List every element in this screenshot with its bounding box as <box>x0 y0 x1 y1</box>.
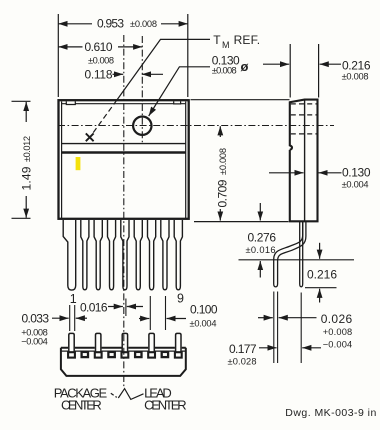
bottom view lead 7 foot <box>148 352 155 357</box>
side view inner line <box>304 101 306 221</box>
svg-text:±0.004: ±0.004 <box>190 318 217 328</box>
bottom view lead 7 column <box>149 333 154 358</box>
side view outline <box>290 100 318 222</box>
lead 8 <box>161 220 169 290</box>
svg-text:−0.004: −0.004 <box>21 337 48 347</box>
side view hidden hole line lower <box>291 133 317 135</box>
side view straight lead <box>300 222 303 287</box>
svg-text:±0.016: ±0.016 <box>246 245 276 255</box>
bottom view lead 3 column <box>96 333 101 358</box>
lead tip level line <box>305 287 337 289</box>
lead 7 <box>148 220 156 290</box>
bar top edge <box>61 347 186 349</box>
lead 5 <box>121 220 129 290</box>
yellow highlight mark <box>76 157 81 170</box>
dim 0.177 arrows <box>259 347 277 349</box>
dim 0.216 top right extension line <box>318 44 320 98</box>
svg-text:0.953: 0.953 <box>97 17 124 31</box>
dim 1.49 arrows <box>25 102 27 122</box>
vertical hole centerline <box>141 36 143 145</box>
svg-text:Dwg. MK-003-9 in: Dwg. MK-003-9 in <box>285 407 376 419</box>
T_M REF leader dashed part <box>91 100 117 135</box>
svg-text:ø: ø <box>241 59 249 74</box>
svg-text:0.118: 0.118 <box>85 67 113 81</box>
lead 4 <box>108 220 116 290</box>
bottom view lead 4 notch <box>108 352 114 357</box>
bottom view lead 5 column <box>122 333 127 358</box>
dim 0.610 arrows <box>58 46 82 48</box>
front view lower ledge line <box>62 151 186 153</box>
svg-text:±0.008: ±0.008 <box>88 56 114 66</box>
mounting hole <box>133 117 151 135</box>
svg-text:1: 1 <box>70 292 77 306</box>
svg-text:T: T <box>213 33 221 47</box>
bottom view lead 9 column <box>176 333 181 358</box>
dim 0.216b up arrow <box>319 289 321 303</box>
svg-text:±0.008: ±0.008 <box>342 72 369 82</box>
dim 1.49 top extension line <box>12 100 31 102</box>
lead 2 <box>81 220 89 290</box>
dim 0.216 top left extension line <box>289 44 291 98</box>
svg-text:±0.008: ±0.008 <box>218 148 228 175</box>
package center leader dashes <box>111 393 117 397</box>
dim 0.130 side arrows <box>269 172 304 174</box>
dim 0.100 arrows <box>139 318 149 320</box>
svg-text:0.016: 0.016 <box>80 300 108 314</box>
svg-text:CENTER: CENTER <box>144 397 187 412</box>
dim 1.49 bottom extension line <box>12 217 31 219</box>
svg-text:±0.004: ±0.004 <box>342 180 369 190</box>
bottom view lead 9 foot <box>175 352 182 357</box>
svg-text:M: M <box>222 40 230 50</box>
svg-text:±0.012: ±0.012 <box>22 136 32 162</box>
front view inner left edge <box>61 102 63 219</box>
side view hidden line top <box>291 103 317 105</box>
svg-text:+0.008: +0.008 <box>323 327 353 337</box>
dim 0.276 down arrow <box>259 203 261 221</box>
T_M REF leader <box>117 39 210 100</box>
bottom view lead 3 foot <box>95 352 102 357</box>
lead 6 <box>134 220 142 290</box>
svg-text:±0.008: ±0.008 <box>212 66 237 76</box>
horizontal hole centerline <box>58 125 334 127</box>
lead 9 <box>174 220 182 290</box>
straight lead extension line <box>300 293 302 364</box>
dim 0.033 arrows <box>52 317 69 319</box>
svg-text:REF.: REF. <box>234 33 261 47</box>
dim 0.100 extension lines <box>150 296 165 330</box>
dim 0.953 arrows <box>58 23 92 25</box>
bar inner top line <box>61 350 186 352</box>
bottom view bar outline <box>61 348 186 376</box>
svg-text:1.49: 1.49 <box>20 166 34 190</box>
svg-text:0.100: 0.100 <box>190 302 218 316</box>
dim 0.953 right extension line <box>187 14 189 97</box>
svg-text:±0.008: ±0.008 <box>130 19 157 29</box>
front view upper ledge line <box>62 143 186 145</box>
dim 0.033 extension lines <box>70 305 75 331</box>
body bottom extension line to side view <box>194 221 289 223</box>
svg-text:0.130: 0.130 <box>342 165 371 179</box>
svg-text:±0.028: ±0.028 <box>228 356 257 366</box>
lead 3 <box>94 220 102 290</box>
svg-text:0.026: 0.026 <box>321 312 353 326</box>
center leader caret <box>118 389 143 400</box>
front view body outline <box>59 100 189 219</box>
svg-text:CENTER: CENTER <box>61 397 102 412</box>
dim 0.118 arrows <box>113 73 124 75</box>
dim 0.953 left extension line <box>57 14 59 97</box>
dim 0.709 arrows <box>219 126 221 137</box>
hole dia leader <box>149 67 210 116</box>
bent lead extension lines <box>274 292 278 364</box>
svg-text:0.216: 0.216 <box>342 58 371 72</box>
front view top-left notch <box>66 101 75 104</box>
body top extension line to side view <box>191 99 290 101</box>
bottom view lead 5 foot <box>122 352 129 357</box>
bottom view lead 2 notch <box>82 352 88 357</box>
svg-text:9: 9 <box>177 292 184 306</box>
svg-text:0.276: 0.276 <box>248 230 277 244</box>
seating plane line <box>239 259 355 261</box>
dim 0.216 top arrows <box>263 63 289 65</box>
svg-text:0.216: 0.216 <box>307 267 337 281</box>
dim 0.016 arrows <box>108 306 123 308</box>
lead 1 <box>63 220 75 290</box>
svg-text:0.177: 0.177 <box>229 342 257 356</box>
dim 0.026 arrows <box>258 317 273 319</box>
lead centerline vertical <box>125 299 127 317</box>
bottom view lead 1 column <box>69 333 74 358</box>
package centerline vertical <box>123 35 125 388</box>
front view inner right edge <box>185 102 187 219</box>
dim 0.216b down arrow <box>319 243 321 259</box>
side view bent lead <box>274 222 306 287</box>
svg-text:0.610: 0.610 <box>85 40 113 54</box>
front view top-right notch <box>174 101 181 104</box>
bottom view lead 8 notch <box>162 352 168 357</box>
side view hidden hole line upper <box>291 114 317 116</box>
T_M X mark <box>86 133 94 141</box>
svg-text:−0.004: −0.004 <box>323 339 353 349</box>
svg-text:0.709: 0.709 <box>216 179 230 207</box>
svg-text:0.033: 0.033 <box>22 311 50 325</box>
bottom view lead 1 foot <box>68 352 75 357</box>
bottom view lead 6 notch <box>135 352 141 357</box>
front view inner top line <box>62 103 185 105</box>
dim 0.276 up arrow <box>259 261 261 278</box>
